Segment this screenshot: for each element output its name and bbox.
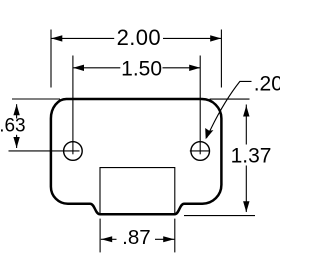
svg-text:.20: .20	[254, 72, 280, 95]
.63 dimension line	[16, 104, 18, 118]
.20 leader	[207, 81, 252, 137]
.87 extension right	[174, 219, 176, 253]
1.37 dimension line	[245, 105, 247, 145]
crosshair right vertical (also 1.50 right extension)	[199, 56, 201, 155]
.87 dimension line	[101, 238, 117, 240]
crosshair right horizontal	[190, 150, 210, 152]
2.00 dimension line	[51, 37, 114, 39]
hole left	[64, 142, 83, 161]
.87 extension left	[99, 219, 101, 253]
1.37 top extension	[210, 98, 250, 100]
svg-text:2.00: 2.00	[117, 25, 161, 50]
svg-text:1.50: 1.50	[121, 58, 162, 81]
svg-text:1.37: 1.37	[231, 145, 272, 168]
1.50 dimension line	[73, 67, 120, 69]
1.37 bottom extension	[184, 215, 255, 217]
.63 top extension	[12, 98, 60, 100]
2.00 extension left	[50, 30, 52, 88]
tab bend rectangle	[100, 168, 175, 214]
crosshair left vertical (also 1.50 left extension)	[72, 56, 74, 155]
svg-text:.63: .63	[0, 116, 26, 137]
2.00 extension right	[220, 30, 222, 88]
crosshair left horizontal (also .63 bottom reference)	[9, 150, 80, 152]
svg-text:.87: .87	[122, 226, 151, 249]
plate outline	[51, 99, 222, 214]
hole right	[191, 142, 210, 161]
